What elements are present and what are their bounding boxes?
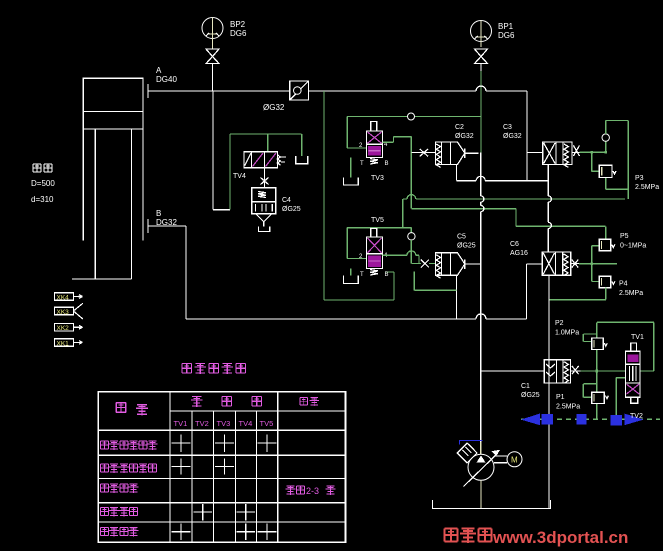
cartridge valve C6 — [542, 252, 571, 276]
cartridge valve C2 — [435, 142, 478, 167]
svg-text:TV1: TV1 — [174, 419, 188, 428]
table header action — [116, 403, 148, 416]
wire green H2 manifold — [411, 209, 605, 240]
shutoff valve under BP2 — [206, 39, 219, 64]
label A DG40 — [156, 66, 177, 84]
row label 3 — [101, 484, 139, 493]
wire C3-C6 drain vertical — [547, 181, 550, 509]
solenoid valve TV4 — [244, 152, 286, 168]
wire pump pressure vertical — [480, 153, 482, 442]
hop H1 over x411 — [407, 195, 416, 199]
label BP1 DG6 — [498, 22, 515, 40]
TV5 port labels — [359, 253, 389, 278]
svg-text:TV5: TV5 — [371, 217, 384, 224]
pressure gauge BP2 — [202, 18, 223, 45]
sequence table grid — [98, 392, 345, 543]
wire A down at x213 — [213, 91, 230, 210]
wire green C3 out to P3 — [580, 141, 606, 171]
test point circle P3 — [602, 134, 609, 141]
label P3 2.5MPa — [635, 175, 659, 191]
plus marks row4 — [194, 504, 256, 521]
wire C3 input — [527, 152, 543, 154]
svg-text:DG6: DG6 — [498, 31, 515, 40]
svg-text:TV2: TV2 — [195, 419, 209, 428]
plus marks row1 — [172, 435, 277, 453]
wire green H1 manifold — [403, 199, 625, 228]
junction dots P3 — [590, 151, 607, 154]
svg-text:TV3: TV3 — [217, 419, 231, 428]
junction dot row2 — [591, 262, 594, 265]
port A tick — [147, 84, 149, 98]
label C6 AG16 — [510, 241, 528, 257]
limit switch XK2 — [55, 324, 83, 333]
hop drain line over pump vertical — [476, 176, 485, 181]
pressure gauge BP1 — [471, 21, 492, 48]
watermark — [445, 529, 492, 543]
relief valve C4 — [252, 188, 276, 232]
drain symbol under TV5 — [350, 269, 352, 276]
test point circle row1 — [408, 113, 415, 120]
wire green P3 loop — [606, 121, 628, 200]
relief valve P1 — [592, 392, 609, 403]
wire green C1 output — [581, 370, 654, 372]
svg-text:d=310: d=310 — [31, 195, 54, 204]
cartridge valve C5 — [435, 253, 480, 278]
svg-text:XK2: XK2 — [57, 325, 70, 332]
svg-text:ØG32: ØG32 — [503, 133, 522, 140]
cylinder piston rod — [72, 129, 132, 279]
wire green TV5 port4 to throttle — [383, 255, 436, 263]
dashed green pilot line — [521, 418, 660, 420]
limit switch XK1 — [55, 339, 83, 348]
svg-text:P5: P5 — [620, 233, 629, 240]
throttle under TV4 — [261, 168, 269, 188]
drain symbol under TV3 — [350, 158, 352, 178]
svg-text:BP2: BP2 — [230, 20, 246, 29]
wire green TV4 supply — [230, 134, 302, 210]
relief valve P2 — [592, 338, 608, 350]
label cylinder — [33, 164, 52, 172]
motor M — [494, 452, 522, 467]
wire C1 input — [481, 370, 545, 372]
svg-text:D=500: D=500 — [31, 179, 55, 188]
throttle row2 — [421, 260, 429, 268]
svg-text:AG16: AG16 — [510, 250, 528, 257]
svg-text:DG40: DG40 — [156, 75, 177, 84]
solenoid valve TV3 — [367, 122, 383, 158]
relief valve P4 — [599, 276, 615, 288]
relief valve P5 — [599, 239, 615, 251]
hops pump vertical over green manifolds — [481, 196, 484, 212]
remark delay 2-3s — [286, 486, 305, 495]
svg-text:ØG25: ØG25 — [457, 243, 476, 250]
svg-text:TV5: TV5 — [260, 419, 274, 428]
wire green C6 out to P5 P4 — [579, 246, 617, 282]
svg-text:2.5MPa: 2.5MPa — [635, 184, 659, 191]
solenoid valve TV5 — [367, 229, 383, 269]
svg-text:B: B — [385, 161, 389, 167]
wire C5 drain down — [456, 275, 458, 319]
svg-text:ØG32: ØG32 — [455, 133, 474, 140]
tank — [432, 500, 550, 509]
svg-text:TV4: TV4 — [239, 419, 253, 428]
svg-text:XK3: XK3 — [57, 309, 70, 316]
wire C2 drain to C3 drain — [457, 91, 549, 181]
label P2 1.0MPa — [555, 320, 579, 337]
wire B down to drain manifold — [148, 226, 542, 319]
table header remark — [300, 397, 319, 406]
svg-text:P2: P2 — [555, 320, 564, 327]
cartridge valve C1 — [544, 360, 570, 384]
table header solenoid — [191, 397, 261, 407]
wire pump to tank — [480, 480, 482, 508]
plus marks row5 — [172, 524, 277, 541]
wire white throttle to C2 — [411, 149, 435, 157]
junction dot C1 out — [596, 370, 599, 373]
wire green test point down — [411, 240, 421, 264]
wire valve BP1 down (green) — [480, 64, 482, 153]
blue arrow left — [521, 414, 540, 426]
svg-text:TV3: TV3 — [371, 175, 384, 182]
label P5 0~1MPa — [620, 233, 646, 250]
hop line A over BP1 green — [476, 86, 486, 91]
drain symbol right of TV4 — [296, 156, 308, 164]
svg-text:2.5MPa: 2.5MPa — [556, 404, 580, 411]
svg-text:ØG32: ØG32 — [263, 103, 285, 112]
svg-text:B: B — [385, 272, 389, 278]
svg-text:DG6: DG6 — [230, 29, 247, 38]
table title — [182, 364, 245, 374]
row label 4 — [101, 508, 138, 517]
limit switch XK3 — [55, 303, 83, 319]
table sub headers TV1-TV5 — [174, 419, 274, 428]
svg-text:BP1: BP1 — [498, 22, 514, 31]
svg-text:C2: C2 — [455, 124, 464, 131]
suction filter — [457, 441, 482, 463]
svg-text:XK4: XK4 — [57, 294, 70, 301]
wire green P2 loop — [583, 334, 597, 342]
svg-text:C6: C6 — [510, 241, 519, 248]
svg-text:C3: C3 — [503, 124, 512, 131]
svg-text:M: M — [511, 456, 518, 465]
label C4 DG25 — [282, 197, 301, 213]
row label 1 — [101, 441, 158, 450]
svg-text:C4: C4 — [282, 197, 291, 204]
svg-text:ØG25: ØG25 — [282, 206, 301, 213]
wire green path B row2 drain — [414, 272, 456, 291]
label BP2 DG6 — [230, 20, 247, 38]
row label 2 — [101, 464, 157, 473]
svg-text:C5: C5 — [457, 234, 466, 241]
wire green TV1 pilot left — [616, 378, 625, 416]
svg-text:P3: P3 — [635, 175, 644, 182]
hop port4 over x411 — [407, 251, 416, 255]
svg-text:C1: C1 — [521, 383, 530, 390]
label C2 DG32 — [455, 124, 474, 140]
label P4 2.5MPa — [619, 281, 643, 298]
plus marks row2 — [172, 459, 235, 475]
wire valve BP2 to line A — [212, 64, 214, 92]
wire green main left drop x324 — [324, 91, 394, 300]
wire green TV5 supply top — [347, 228, 411, 259]
throttle right of C3 — [572, 145, 580, 156]
svg-text:2-3: 2-3 — [306, 486, 319, 496]
svg-text:T: T — [360, 161, 364, 167]
pump suction stub — [480, 442, 482, 454]
label P1 2.5MPa — [556, 394, 580, 411]
svg-text:TV1: TV1 — [631, 334, 644, 341]
svg-text:0~1MPa: 0~1MPa — [620, 243, 646, 250]
svg-text:1.0MPa: 1.0MPa — [555, 330, 579, 337]
svg-text:TV2: TV2 — [630, 413, 643, 420]
hop B-line over pump vertical — [476, 314, 486, 319]
main cylinder body — [83, 78, 143, 240]
svg-text:B: B — [156, 209, 161, 218]
solenoid valve TV1 — [626, 343, 641, 403]
svg-text:TV4: TV4 — [233, 173, 246, 180]
relief valve P3 — [599, 165, 616, 177]
blue arrow right — [624, 414, 643, 426]
throttle right of C1 — [570, 366, 580, 374]
limit switch XK4 — [55, 293, 83, 302]
throttle right of C6 — [571, 260, 580, 268]
blue square 1 — [541, 414, 553, 425]
row label 5 — [101, 527, 139, 536]
svg-text:T: T — [360, 272, 364, 278]
wire green P4 drain to C6 drain — [549, 288, 606, 300]
cartridge valve C3 — [543, 142, 572, 167]
check valve block DG32 — [290, 81, 309, 100]
hops drain vertical over green manifolds — [548, 196, 551, 229]
svg-text:XK1: XK1 — [57, 340, 70, 347]
spring under TV5 — [370, 270, 378, 276]
port B tick — [147, 219, 149, 233]
blue square 2 — [576, 414, 586, 425]
svg-text:A: A — [156, 66, 162, 75]
label C1 DG25 — [521, 383, 540, 399]
test point circle row2 — [408, 233, 415, 240]
label C3 DG32 — [503, 124, 522, 140]
wire line A — [148, 90, 527, 92]
spring under TV3 — [370, 159, 378, 165]
label C5 DG25 — [457, 234, 476, 250]
svg-text:ØG25: ØG25 — [521, 392, 540, 399]
label B DG32 — [156, 209, 177, 227]
shutoff valve under BP1 — [475, 49, 488, 64]
wire green pilot loop top — [597, 322, 654, 419]
wire green TV3 port4 — [383, 137, 412, 209]
blue square 3 — [610, 415, 622, 425]
TV3 port labels — [359, 142, 389, 167]
svg-text:P1: P1 — [556, 394, 565, 401]
pump — [464, 451, 499, 487]
svg-text:www.3dportal.cn: www.3dportal.cn — [492, 528, 628, 547]
wire green P1 loop — [583, 384, 597, 398]
wire green TV3 supply top — [347, 117, 481, 149]
svg-text:2.5MPa: 2.5MPa — [619, 290, 643, 297]
svg-text:P4: P4 — [619, 281, 628, 288]
